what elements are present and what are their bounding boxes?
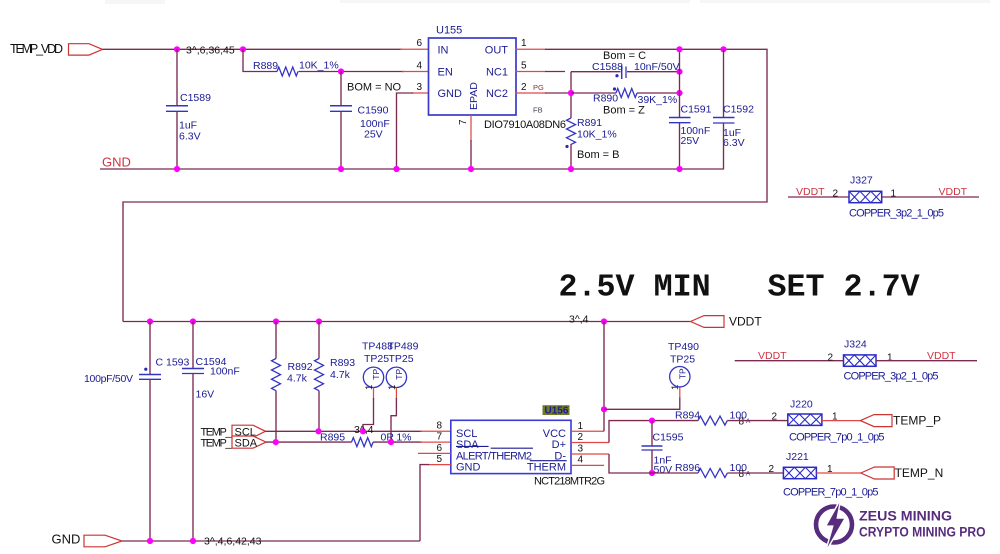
capacitor C1591 (669, 118, 691, 123)
svg-text:ZEUS MINING: ZEUS MINING (859, 509, 952, 524)
wire C1588 left lead (571, 71, 621, 73)
resistor R892 (272, 359, 281, 391)
svg-text:C 1593: C 1593 (156, 357, 190, 369)
junction rail C1589 (174, 166, 180, 172)
svg-text:FB: FB (533, 106, 543, 115)
svg-text:D+: D+ (552, 439, 566, 451)
wire R894 to J220 (727, 420, 788, 422)
pin stub U155 pin3 (412, 92, 429, 94)
wire C1589 bottom lead (176, 111, 178, 169)
svg-text:6: 6 (416, 38, 422, 49)
GND rail bottom (122, 540, 420, 542)
svg-text:TP: TP (678, 368, 688, 379)
svg-text:C1588: C1588 (592, 61, 623, 73)
bom dot R890 (613, 87, 616, 90)
pin stub U155 pin6 (400, 48, 429, 50)
svg-text:6: 6 (436, 443, 442, 454)
svg-text:R894: R894 (675, 409, 700, 421)
junction bottom C1594 (190, 538, 196, 544)
svg-text:R889: R889 (253, 60, 278, 72)
svg-text:R896: R896 (675, 462, 700, 474)
resistor R894 (698, 416, 727, 425)
svg-text:3^,4: 3^,4 (354, 424, 374, 436)
pin stub U156 pin8 (420, 430, 451, 432)
VDDT rail (123, 321, 691, 323)
junction rail C1591 (676, 166, 682, 172)
svg-text:COPPER_3p2_1_0p5: COPPER_3p2_1_0p5 (844, 371, 939, 383)
svg-text:C1595: C1595 (653, 431, 684, 443)
svg-text:VDDT: VDDT (927, 350, 956, 362)
wire J324 left (735, 360, 844, 362)
svg-text:DIO7910A08DN6: DIO7910A08DN6 (484, 119, 566, 131)
pin stub U156 pin4 THERM dangling (571, 464, 604, 466)
wire C1593 bottom lead (149, 379, 151, 541)
wire SCL net (266, 430, 423, 432)
wire C1595 bottom lead (651, 450, 653, 473)
junction SDA TP489 (388, 439, 394, 445)
wire C1588/R891 vertical (570, 72, 572, 118)
copper jumper J220 (788, 414, 822, 425)
wire C1588 right lead (627, 71, 680, 73)
wire J327 right (882, 196, 979, 198)
pin stub U155 pin1 OUT (516, 48, 547, 50)
wire TP490 branch (604, 397, 680, 409)
wire C1590 bottom lead (340, 111, 342, 169)
svg-text:VDDT: VDDT (939, 186, 968, 198)
svg-text:SET 2.7V: SET 2.7V (768, 270, 920, 306)
svg-text:NC1: NC1 (486, 67, 508, 79)
svg-text:8: 8 (739, 469, 745, 480)
label U156 highlighted (543, 405, 570, 416)
wire R892 bottom lead to SDA (275, 391, 277, 442)
copper jumper J324 (844, 355, 877, 366)
svg-text:1: 1 (364, 385, 375, 390)
junction rail R892 (273, 318, 279, 324)
wire EPAD to GND rail (470, 140, 472, 169)
svg-text:3^,6,36,45: 3^,6,36,45 (186, 45, 235, 57)
svg-text:OUT: OUT (485, 45, 509, 57)
svg-text:10K_1%: 10K_1% (577, 129, 617, 141)
svg-text:50V: 50V (654, 464, 673, 476)
wire U155 GND to rail (397, 93, 414, 169)
pin stub TP489 (395, 388, 397, 400)
junction OUT at C1591 (676, 46, 682, 52)
junction OUT at C1592 (720, 46, 726, 52)
svg-text:R890: R890 (593, 93, 618, 105)
overline ALERT (491, 447, 533, 449)
pin stub U155 pin5 NC1 (516, 71, 547, 73)
svg-text:5: 5 (521, 60, 527, 71)
connector GND bottom (84, 535, 122, 547)
svg-text:Bom = B: Bom = B (577, 149, 620, 161)
svg-text:COPPER_3p2_1_0p5: COPPER_3p2_1_0p5 (849, 208, 944, 220)
svg-text:GND: GND (438, 88, 463, 100)
svg-text:BOM = NO: BOM = NO (347, 82, 402, 94)
svg-text:J220: J220 (790, 399, 813, 411)
svg-text:2: 2 (521, 82, 527, 93)
svg-text:J324: J324 (844, 339, 867, 351)
wire R892 top lead (275, 322, 277, 359)
svg-text:VDDT: VDDT (758, 350, 787, 362)
capacitor C1595 (642, 446, 663, 450)
junction VDDT/TP490 branch (601, 406, 607, 412)
wire VDDT vertical to VCC (603, 322, 605, 432)
wire J327 left (788, 196, 849, 198)
svg-text:25V: 25V (364, 129, 383, 141)
svg-text:2.5V MIN: 2.5V MIN (559, 270, 711, 306)
svg-text:4: 4 (578, 455, 584, 466)
wire R890 right lead (637, 92, 680, 94)
wire TP488 to SCL (363, 398, 374, 431)
chip U156 body (451, 420, 571, 473)
pin stub U155 pin2 NC2 (516, 92, 547, 94)
svg-text:A: A (746, 471, 751, 478)
svg-text:1: 1 (578, 421, 584, 432)
wire R893 bottom lead to SCL (318, 391, 320, 432)
pin stub U156 pin2 D+ (571, 442, 609, 444)
svg-text:TP: TP (394, 369, 404, 380)
wire R893 top lead (318, 322, 320, 359)
wire J324 right (876, 360, 977, 362)
pin stub U156 pin3 D- (571, 453, 609, 455)
svg-text:GND: GND (102, 155, 131, 170)
capacitor C1593 (139, 375, 161, 380)
svg-text:10K_1%: 10K_1% (299, 60, 339, 72)
resistor R893 (315, 359, 324, 391)
testpoint TP490 (670, 367, 690, 387)
wire SDA net right (373, 441, 422, 443)
svg-text:THERM: THERM (527, 462, 566, 474)
svg-text:SCL: SCL (456, 428, 477, 440)
svg-text:VCC: VCC (543, 428, 566, 440)
testpoint TP488 (363, 367, 383, 387)
svg-text:C1591: C1591 (681, 104, 712, 116)
svg-text:7: 7 (436, 432, 442, 443)
svg-text:U156: U156 (545, 406, 569, 417)
svg-text:COPPER_7p0_1_0p5: COPPER_7p0_1_0p5 (789, 432, 885, 444)
svg-text:2: 2 (828, 352, 834, 363)
svg-text:TP25: TP25 (364, 353, 389, 365)
svg-text:6.3V: 6.3V (179, 131, 201, 143)
svg-text:TP25: TP25 (389, 353, 414, 365)
svg-text:J327: J327 (850, 175, 873, 187)
pin stub TP488 (373, 388, 375, 400)
svg-text:A: A (746, 418, 751, 425)
svg-text:TP490: TP490 (668, 341, 699, 353)
svg-text:2: 2 (769, 464, 775, 475)
wire D- to R896 row (609, 454, 698, 473)
junction R890 right (676, 90, 682, 96)
junction bottom C1593 (147, 538, 153, 544)
bom dot C1593 (144, 368, 147, 371)
svg-text:Bom = Z: Bom = Z (603, 105, 645, 117)
junction at R889 branch (240, 46, 246, 52)
connector TEMP_P (860, 415, 892, 427)
wire C1591 vertical top (679, 49, 681, 117)
wire U156 GND to rail (420, 465, 429, 541)
capacitor C1588 (622, 66, 626, 80)
svg-text:IN: IN (438, 45, 449, 57)
svg-text:J221: J221 (786, 451, 809, 463)
wire C1595 top lead (651, 421, 653, 446)
wire TP489 to SDA (391, 398, 396, 442)
svg-text:TP25: TP25 (670, 353, 695, 365)
svg-text:SDA: SDA (456, 439, 479, 451)
connector VDDT (691, 316, 725, 328)
svg-text:R893: R893 (330, 357, 355, 369)
connector TEMP_VDD (69, 44, 103, 55)
bom dot R891 (565, 145, 568, 148)
svg-text:3^,4: 3^,4 (569, 314, 589, 326)
pin stub U156 pin6 dangling (418, 452, 451, 454)
wire NC2 to junction (545, 92, 571, 94)
junction SCL R893 (315, 428, 321, 434)
wire C1592 vertical top (723, 49, 725, 117)
junction rail R891 (568, 166, 574, 172)
svg-text:NC2: NC2 (486, 88, 508, 100)
connector TEMP_SCL (232, 425, 266, 437)
svg-text:TP: TP (371, 369, 381, 380)
svg-text:4: 4 (416, 60, 422, 71)
svg-text:GND: GND (456, 462, 481, 474)
svg-text:2: 2 (578, 432, 584, 443)
svg-text:7: 7 (458, 119, 469, 125)
wire C1594 bottom lead (192, 374, 194, 542)
wire C1589 top lead (176, 49, 178, 105)
svg-text:TEMP_N: TEMP_N (895, 466, 944, 480)
junction C1595 bottom (649, 470, 655, 476)
wire C1594 top lead (192, 322, 194, 369)
svg-text:16V: 16V (196, 389, 215, 401)
svg-text:U155: U155 (436, 25, 462, 37)
svg-text:TEMP_P: TEMP_P (893, 414, 941, 428)
svg-text:2: 2 (772, 412, 778, 423)
svg-text:C1590: C1590 (358, 105, 389, 117)
resistor R889 (277, 67, 298, 76)
pin stub U156 pin5 (428, 464, 451, 466)
svg-text:TEMP_: TEMP_ (201, 437, 233, 449)
wire R896 to J221 (727, 472, 783, 474)
svg-text:EN: EN (438, 67, 453, 79)
junction rail U156 VCC (601, 318, 607, 324)
svg-text:GND: GND (52, 532, 81, 547)
pin stub U155 pin4 (402, 71, 429, 73)
svg-text:SDA: SDA (235, 437, 258, 449)
logo zeus bolt (827, 503, 844, 548)
wire TEMP_VDD net to U155 IN (103, 48, 403, 50)
wire D+ to R894 row (609, 421, 698, 443)
svg-text:8: 8 (436, 421, 442, 432)
svg-text:C1592: C1592 (723, 104, 754, 116)
svg-text:25V: 25V (681, 135, 700, 147)
svg-text:TP489: TP489 (388, 341, 419, 353)
svg-text:ALERT/THERM2: ALERT/THERM2 (456, 450, 532, 462)
svg-text:8: 8 (739, 417, 745, 428)
resistor R891 vertical (567, 118, 576, 144)
wire C1593 top lead (149, 322, 151, 375)
chip U155 body (429, 38, 517, 115)
svg-text:3: 3 (578, 443, 584, 454)
svg-text:1: 1 (887, 352, 893, 363)
resistor R895 (352, 438, 374, 447)
svg-text:R892: R892 (288, 361, 313, 373)
junction rail C1594 (190, 318, 196, 324)
svg-text:C1589: C1589 (180, 92, 211, 104)
underline SDA (456, 445, 489, 447)
junction rail C1593 (147, 318, 153, 324)
overline THERM (530, 460, 567, 462)
svg-text:CRYPTO MINING PRO: CRYPTO MINING PRO (859, 525, 986, 540)
wire R890 left lead (571, 92, 616, 94)
wire OUT net top (123, 49, 767, 321)
svg-text:R895: R895 (320, 431, 345, 443)
svg-text:EPAD: EPAD (468, 82, 480, 110)
junction SDA R892 (273, 439, 279, 445)
connector TEMP_N (861, 467, 894, 479)
junction rail U155 GND (393, 166, 399, 172)
connector TEMP_SDA (232, 436, 266, 448)
wire C1591 bottom lead (679, 123, 681, 169)
svg-text:NCT218MTR2G: NCT218MTR2G (534, 476, 605, 488)
svg-text:4.7k: 4.7k (330, 369, 351, 381)
svg-text:6.3V: 6.3V (723, 137, 745, 149)
svg-text:3: 3 (416, 82, 422, 93)
pin stub U155 pin7 EPAD (470, 115, 472, 141)
svg-text:R891: R891 (577, 117, 602, 129)
wire R889 to EN (299, 71, 405, 73)
wire J221 to TEMP_N (816, 472, 860, 474)
GND rail top (100, 168, 724, 170)
wire SDA net left (266, 441, 352, 443)
svg-text:5: 5 (436, 454, 442, 465)
pin stub U156 pin1 VCC (571, 430, 604, 432)
junction rail R893 (316, 318, 322, 324)
capacitor C1592 (713, 118, 735, 124)
pin stub TP490 (679, 388, 681, 399)
svg-text:2: 2 (833, 189, 839, 200)
copper jumper J221 (783, 467, 816, 478)
wire R889 branch down (243, 49, 277, 71)
wire NC1 dangling (545, 71, 565, 73)
junction C1595 top (649, 418, 655, 424)
svg-text:COPPER_7p0_1_0p5: COPPER_7p0_1_0p5 (783, 487, 879, 499)
junction C1588 right (676, 69, 682, 75)
junction at C1589 (174, 46, 180, 52)
bom dot C1588 (615, 74, 618, 77)
svg-text:PG: PG (533, 83, 544, 92)
svg-text:3^,4,6,42,43: 3^,4,6,42,43 (204, 536, 262, 548)
svg-text:VDDT: VDDT (796, 186, 825, 198)
junction NC2 node (568, 90, 574, 96)
svg-text:TEMP_VDD: TEMP_VDD (10, 42, 63, 56)
logo zeus ring (816, 503, 852, 548)
capacitor C1590 (330, 106, 352, 112)
svg-text:1: 1 (387, 385, 398, 390)
junction SCL TP488 (360, 428, 366, 434)
svg-text:1: 1 (521, 38, 527, 49)
resistor R896 (698, 469, 727, 478)
junction rail C1590 (338, 166, 344, 172)
resistor R890 (616, 89, 637, 98)
pin stub U156 pin7 (420, 441, 451, 443)
svg-text:VDDT: VDDT (729, 315, 762, 329)
capacitor C1589 (166, 106, 188, 112)
copper jumper J327 (849, 191, 882, 202)
wire C1592 bottom lead to rail end (723, 123, 725, 170)
wire J220 to TEMP_P (822, 420, 861, 422)
capacitor C1594 (182, 369, 204, 374)
svg-text:100pF/50V: 100pF/50V (84, 373, 133, 385)
svg-text:1: 1 (891, 189, 897, 200)
junction R889/C1590 (338, 68, 344, 74)
testpoint TP489 (386, 367, 406, 387)
svg-text:4.7k: 4.7k (287, 373, 308, 385)
junction rail EPAD (468, 166, 474, 172)
wire C1590 top lead (340, 72, 342, 106)
svg-text:100nF: 100nF (210, 366, 240, 378)
top edge cropped text remnants (105, 0, 990, 4)
